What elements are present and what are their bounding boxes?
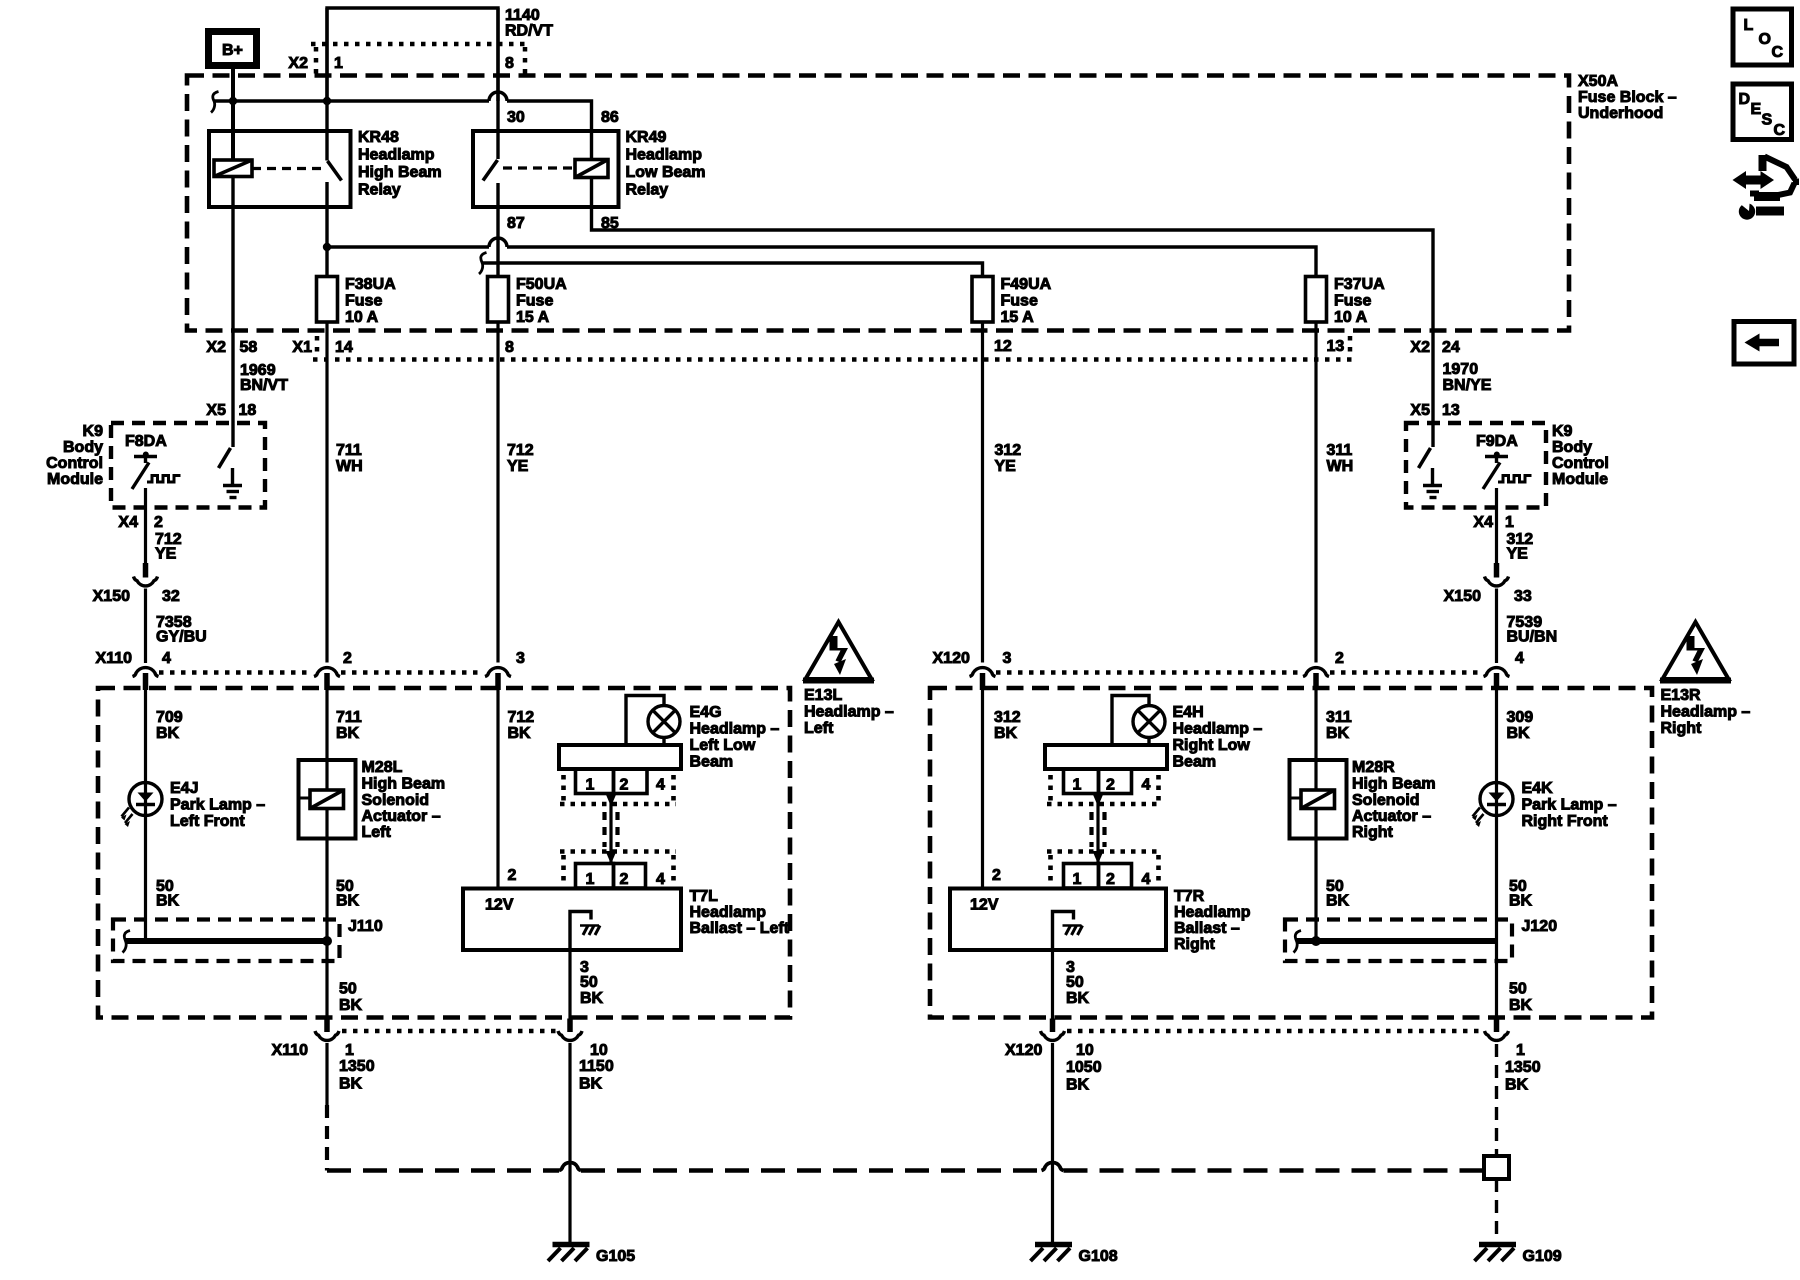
svg-text:BK: BK	[1507, 725, 1531, 742]
svg-text:10: 10	[1076, 1042, 1094, 1059]
svg-text:BK: BK	[1505, 1077, 1529, 1094]
fuse element F8DA	[132, 452, 181, 490]
svg-text:Right: Right	[1661, 720, 1703, 737]
wire branch to F49UA	[482, 263, 983, 277]
svg-text:86: 86	[601, 109, 619, 126]
svg-text:T7L: T7L	[690, 888, 719, 905]
svg-text:X4: X4	[118, 514, 138, 531]
headlamp bulb E4H loop	[1112, 696, 1149, 746]
svg-text:X110: X110	[96, 650, 133, 667]
svg-text:Body: Body	[63, 439, 103, 456]
svg-text:Fuse Block –: Fuse Block –	[1578, 89, 1677, 106]
wire 712 BK	[496, 690, 499, 889]
svg-text:X2: X2	[288, 55, 308, 72]
svg-text:E13R: E13R	[1661, 687, 1701, 704]
hook splice at J110 bus	[123, 931, 131, 953]
svg-text:X110: X110	[272, 1042, 309, 1059]
svg-text:Control: Control	[1552, 455, 1609, 472]
svg-text:KR49: KR49	[626, 129, 667, 146]
headlamp E4G base bar	[559, 745, 681, 769]
svg-text:1: 1	[1073, 777, 1082, 794]
svg-text:X150: X150	[1444, 588, 1481, 605]
svg-text:BU/BN: BU/BN	[1507, 629, 1558, 646]
connector X110 pin 4 cup	[133, 668, 159, 690]
svg-text:BK: BK	[1509, 997, 1533, 1014]
svg-text:K9: K9	[1552, 423, 1573, 440]
svg-text:311: 311	[1326, 709, 1352, 726]
svg-text:BK: BK	[156, 725, 180, 742]
svg-text:YE: YE	[155, 546, 177, 563]
svg-text:312: 312	[995, 442, 1022, 459]
connector X2 top dotted box	[311, 44, 528, 75]
svg-text:Park Lamp –: Park Lamp –	[1522, 797, 1617, 814]
connector pins 1 2 4 upper right	[1064, 769, 1132, 794]
wire hop over pin-8 line	[489, 92, 507, 101]
svg-text:F38UA: F38UA	[345, 276, 396, 293]
headlamp bulb E4H	[1133, 706, 1165, 746]
splice box right	[1484, 1156, 1509, 1179]
connector X150-33 pin and cup	[1494, 563, 1500, 578]
male pin arrow lower left	[606, 851, 617, 864]
svg-text:J110: J110	[348, 918, 383, 935]
svg-text:309: 309	[1507, 709, 1534, 726]
connector X120 pin 3 cup	[970, 668, 996, 690]
connector pins 1 2 4 lower right	[1064, 864, 1132, 889]
svg-text:50: 50	[1066, 974, 1084, 991]
relay KR49 switch blade	[483, 160, 498, 181]
ground symbol in BCM right	[1423, 468, 1442, 498]
connector dashed box upper left	[560, 775, 676, 804]
svg-text:1: 1	[334, 55, 343, 72]
svg-text:87: 87	[507, 215, 525, 232]
solenoid M28R box	[1290, 760, 1347, 839]
ground distribution dashed path left	[325, 1105, 329, 1171]
svg-text:Beam: Beam	[690, 754, 734, 771]
fuse element F9DA	[1483, 452, 1532, 490]
svg-text:BN/VT: BN/VT	[240, 377, 288, 394]
svg-text:BK: BK	[336, 893, 360, 910]
hop dome over G108 wire	[1042, 1163, 1064, 1171]
svg-text:WH: WH	[336, 458, 363, 475]
harness wire between connectors left	[609, 794, 612, 865]
wire E4K ground down	[1495, 941, 1498, 1019]
svg-text:Actuator –: Actuator –	[1352, 808, 1431, 825]
junction dot pin87 branch	[323, 243, 331, 251]
svg-text:E13L: E13L	[804, 687, 842, 704]
svg-text:Body: Body	[1552, 439, 1592, 456]
svg-text:BK: BK	[508, 725, 532, 742]
svg-text:8: 8	[505, 55, 514, 72]
svg-text:312: 312	[994, 709, 1021, 726]
wire branch 87 to fuse F37UA	[327, 245, 489, 248]
svg-text:2: 2	[508, 867, 517, 884]
connector X110 top dotted strip	[159, 670, 484, 675]
svg-text:711: 711	[336, 442, 362, 459]
wire bus to KR49 pin 86	[507, 101, 592, 160]
connector X120 pin 2 cup	[1303, 668, 1329, 690]
svg-text:4: 4	[1515, 650, 1524, 667]
svg-text:BN/YE: BN/YE	[1443, 377, 1492, 394]
svg-text:E4G: E4G	[690, 704, 722, 721]
svg-text:10 A: 10 A	[1334, 309, 1368, 326]
svg-text:Left Low: Left Low	[690, 737, 756, 754]
wire 711 BK	[325, 690, 328, 760]
svg-text:12V: 12V	[485, 897, 514, 914]
svg-text:711: 711	[336, 709, 362, 726]
svg-text:8: 8	[505, 339, 514, 356]
relay KR49 coil	[575, 160, 608, 178]
wire 312 BK	[981, 690, 984, 889]
wire KR48 pin 87 down to fuse F38UA	[325, 182, 328, 277]
svg-text:Headlamp –: Headlamp –	[1173, 721, 1263, 738]
svg-text:3: 3	[516, 650, 525, 667]
svg-text:1: 1	[1073, 871, 1082, 888]
svg-text:1350: 1350	[339, 1058, 375, 1075]
wire KR49 pin 87 down to fuse F50UA	[496, 183, 499, 277]
svg-text:GY/BU: GY/BU	[156, 629, 207, 646]
module K9 BCM right dashed box	[1406, 423, 1546, 508]
svg-text:13: 13	[1442, 402, 1460, 419]
connector X120-1 pin and cup	[1494, 1019, 1500, 1033]
connector X110-10 pin and cup	[567, 1019, 573, 1033]
svg-text:RD/VT: RD/VT	[505, 23, 553, 40]
relay KR48 box	[209, 131, 351, 207]
wire pin8 to KR49 switch	[496, 8, 499, 159]
headlamp bulb E4G	[648, 706, 680, 746]
svg-text:Right: Right	[1174, 936, 1216, 953]
svg-text:4: 4	[162, 650, 171, 667]
svg-text:E4K: E4K	[1522, 780, 1554, 797]
svg-text:2: 2	[620, 777, 629, 794]
svg-text:BK: BK	[580, 990, 604, 1007]
svg-text:3: 3	[1003, 650, 1012, 667]
svg-text:K9: K9	[83, 423, 104, 440]
ground bus J120	[1297, 938, 1497, 944]
ground symbol in BCM left	[223, 468, 242, 498]
wire dashed splice to G109	[1495, 1179, 1498, 1243]
hook splice at bus start	[211, 92, 219, 113]
svg-text:10 A: 10 A	[345, 309, 379, 326]
svg-text:BK: BK	[339, 997, 363, 1014]
svg-text:F49UA: F49UA	[1001, 276, 1052, 293]
svg-text:S: S	[1762, 112, 1773, 129]
svg-text:Headlamp –: Headlamp –	[804, 704, 894, 721]
svg-text:F37UA: F37UA	[1334, 276, 1385, 293]
wire 709 BK	[144, 690, 147, 941]
wire hop over pin87 line	[489, 238, 507, 247]
svg-text:E4J: E4J	[170, 780, 198, 797]
svg-text:33: 33	[1514, 588, 1532, 605]
svg-text:Park Lamp –: Park Lamp –	[170, 797, 265, 814]
wire 7358 GY/BU	[144, 589, 147, 664]
svg-text:712: 712	[507, 442, 534, 459]
svg-text:YE: YE	[1507, 546, 1529, 563]
svg-text:Left Front: Left Front	[170, 813, 245, 830]
svg-text:BK: BK	[1326, 725, 1350, 742]
svg-text:BK: BK	[1509, 893, 1533, 910]
svg-text:F9DA: F9DA	[1476, 433, 1518, 450]
svg-text:YE: YE	[995, 458, 1017, 475]
svg-text:712: 712	[508, 709, 535, 726]
junction dot J110	[322, 936, 332, 946]
icon navigation arrow with wrench	[1733, 155, 1800, 220]
svg-text:High Beam: High Beam	[362, 776, 446, 793]
battery feed B+	[209, 32, 257, 66]
wire pin1 to KR48 switch	[325, 8, 328, 161]
svg-text:1970: 1970	[1443, 361, 1479, 378]
relay KR49 box	[473, 131, 619, 207]
svg-text:14: 14	[335, 339, 353, 356]
svg-text:18: 18	[239, 402, 257, 419]
svg-text:Module: Module	[47, 471, 103, 488]
wire 311 BK	[1314, 690, 1317, 760]
splice block J110 dashed box	[113, 920, 340, 962]
ballast T7R box	[950, 889, 1166, 951]
wire 1350 BK right dashed to splice	[1495, 1044, 1498, 1156]
svg-text:BK: BK	[156, 893, 180, 910]
svg-text:X2: X2	[206, 339, 226, 356]
connector X120 bottom dotted strip	[1067, 1029, 1483, 1034]
svg-text:1: 1	[586, 871, 595, 888]
wire 311 WH mid	[1314, 322, 1317, 663]
wire T7R ground down	[1051, 950, 1054, 1019]
connector pins 1 2 4 lower left	[576, 864, 646, 889]
svg-text:2: 2	[620, 871, 629, 888]
svg-text:B+: B+	[222, 42, 243, 59]
svg-text:2: 2	[1106, 777, 1115, 794]
hook splice at J120 bus	[1294, 931, 1302, 953]
svg-text:Low Beam: Low Beam	[626, 164, 706, 181]
svg-text:50: 50	[1509, 981, 1527, 998]
svg-text:High Beam: High Beam	[1352, 776, 1436, 793]
svg-text:1: 1	[1505, 514, 1514, 531]
wire X4-2 out of BCM left	[144, 488, 147, 563]
svg-text:1140: 1140	[505, 7, 540, 24]
svg-text:Headlamp: Headlamp	[358, 147, 435, 164]
svg-text:X2: X2	[1410, 339, 1430, 356]
svg-text:1150: 1150	[579, 1058, 614, 1075]
svg-text:2: 2	[154, 514, 163, 531]
svg-text:Fuse: Fuse	[516, 293, 553, 310]
svg-text:2: 2	[343, 650, 352, 667]
svg-text:13: 13	[1327, 338, 1345, 355]
switch in BCM left	[219, 448, 231, 468]
svg-text:4: 4	[1142, 777, 1151, 794]
svg-text:10: 10	[590, 1042, 608, 1059]
svg-text:Right Front: Right Front	[1522, 813, 1609, 830]
warning triangle E13R	[1660, 622, 1731, 681]
svg-text:G105: G105	[596, 1248, 635, 1265]
ballast T7L box	[463, 889, 681, 951]
connector X110 bottom dotted strip	[342, 1029, 556, 1034]
svg-text:30: 30	[507, 109, 525, 126]
wire B+ vertical	[231, 69, 235, 160]
relay KR49 coil link dashed	[503, 166, 575, 169]
svg-text:X150: X150	[93, 588, 130, 605]
fuse F50UA	[488, 277, 509, 323]
svg-text:KR48: KR48	[358, 129, 399, 146]
svg-text:BK: BK	[336, 725, 360, 742]
wire 1350 BK to ground path	[325, 1043, 328, 1105]
headlamp E13L dashed box	[98, 688, 790, 1018]
wire 1050 BK down to G108	[1051, 1043, 1054, 1243]
connector pins 1 2 4 upper left	[576, 769, 648, 794]
headlamp bulb E4G loop	[626, 696, 664, 746]
relay KR48 switch blade	[328, 161, 342, 181]
svg-text:50: 50	[580, 974, 598, 991]
male pin arrow upper left	[606, 794, 617, 807]
relay KR48 coil link dashed	[252, 167, 321, 170]
svg-text:1: 1	[1516, 1042, 1525, 1059]
svg-text:709: 709	[156, 709, 183, 726]
svg-text:Headlamp –: Headlamp –	[690, 721, 780, 738]
wire T7L ground down	[568, 950, 571, 1019]
male pin arrow upper right	[1093, 794, 1104, 807]
svg-text:1050: 1050	[1066, 1059, 1102, 1076]
wire KR49 pin 85 to right drop	[592, 178, 1434, 448]
wire 711 WH	[325, 322, 328, 663]
wire 312 YE mid	[981, 322, 984, 663]
svg-text:Right: Right	[1352, 824, 1394, 841]
wire to F37UA	[507, 247, 1316, 277]
svg-text:Fuse: Fuse	[1001, 293, 1038, 310]
ground G109	[1475, 1245, 1517, 1262]
svg-text:Right Low: Right Low	[1173, 737, 1251, 754]
module K9 BCM left dashed box	[111, 423, 265, 508]
junction dot J120	[1311, 936, 1321, 946]
svg-text:D: D	[1739, 91, 1751, 108]
connector X110 pin 2 cup	[314, 668, 340, 690]
svg-text:E: E	[1751, 101, 1762, 118]
svg-text:G109: G109	[1523, 1248, 1562, 1265]
harness wire between connectors right	[1096, 794, 1099, 865]
svg-text:Ballast –: Ballast –	[1174, 920, 1240, 937]
svg-text:X5: X5	[1410, 402, 1430, 419]
connector X150-32 pin and cup	[143, 563, 149, 578]
ground bus J110	[126, 938, 329, 944]
hop dome over G105 wire	[559, 1162, 581, 1170]
svg-text:2: 2	[1106, 871, 1115, 888]
wire 1150 BK down to G105	[568, 1043, 571, 1243]
svg-text:1: 1	[586, 777, 595, 794]
svg-text:Underhood: Underhood	[1578, 105, 1663, 122]
ground symbol in T7R	[1053, 912, 1083, 951]
svg-text:Headlamp –: Headlamp –	[1661, 704, 1751, 721]
svg-text:O: O	[1759, 31, 1771, 48]
ground G108	[1031, 1245, 1073, 1262]
wire 712 YE mid	[496, 322, 499, 663]
svg-text:X5: X5	[206, 402, 226, 419]
park lamp E4J	[121, 783, 162, 828]
svg-text:X120: X120	[933, 650, 970, 667]
svg-text:2: 2	[1335, 650, 1344, 667]
svg-text:Module: Module	[1552, 471, 1608, 488]
svg-text:1350: 1350	[1505, 1059, 1541, 1076]
relay KR48 coil	[214, 160, 252, 177]
connector X120 pin 4 cup	[1484, 668, 1510, 690]
svg-text:4: 4	[656, 871, 665, 888]
solenoid M28L box	[299, 760, 356, 839]
fuse F49UA	[972, 277, 993, 323]
headlamp E13R dashed box	[930, 688, 1652, 1018]
svg-text:J120: J120	[1522, 918, 1558, 935]
svg-text:Left: Left	[362, 824, 392, 841]
junction dot at pin1 bus	[323, 97, 331, 105]
svg-text:X120: X120	[1005, 1042, 1042, 1059]
svg-text:X4: X4	[1473, 514, 1493, 531]
svg-text:Control: Control	[46, 455, 103, 472]
svg-text:12: 12	[994, 338, 1012, 355]
wire top loop 1140 RD/VT	[327, 8, 498, 101]
svg-text:Fuse: Fuse	[345, 293, 382, 310]
svg-text:YE: YE	[507, 458, 529, 475]
svg-text:F50UA: F50UA	[516, 276, 567, 293]
svg-text:Headlamp: Headlamp	[1174, 904, 1251, 921]
svg-text:T7R: T7R	[1174, 888, 1205, 905]
svg-text:High Beam: High Beam	[358, 164, 442, 181]
splice block J120 dashed box	[1285, 920, 1512, 962]
connector X110-1 pin and cup	[324, 1019, 330, 1033]
svg-text:C: C	[1774, 122, 1786, 139]
icon DESC box	[1733, 84, 1792, 140]
connector X1 dotted box	[313, 336, 1352, 360]
svg-text:Solenoid: Solenoid	[362, 792, 430, 809]
svg-text:12V: 12V	[970, 897, 999, 914]
wire through M28L	[325, 760, 328, 790]
fuse F38UA	[317, 277, 338, 323]
svg-text:1: 1	[345, 1042, 354, 1059]
svg-text:24: 24	[1442, 339, 1460, 356]
ground symbol in T7L	[570, 912, 600, 951]
wire X4-1 out of BCM right	[1495, 488, 1498, 563]
svg-text:E4H: E4H	[1173, 704, 1204, 721]
wire B+ bus	[214, 99, 489, 102]
park lamp E4K	[1472, 783, 1513, 828]
svg-text:BK: BK	[339, 1076, 363, 1093]
fuse block X50A dashed box	[187, 76, 1569, 331]
switch in BCM right	[1419, 448, 1431, 468]
svg-text:BK: BK	[1066, 1077, 1090, 1094]
svg-text:15 A: 15 A	[516, 309, 550, 326]
svg-text:15 A: 15 A	[1001, 309, 1035, 326]
icon back arrow box	[1734, 322, 1794, 365]
connector dashed box lower right	[1047, 852, 1161, 883]
connector X120-10 pin and cup	[1050, 1019, 1056, 1033]
svg-text:M28R: M28R	[1352, 759, 1395, 776]
ground distribution dashed bus	[327, 1168, 1484, 1173]
hook splice at F49UA branch	[479, 253, 487, 275]
svg-text:2: 2	[992, 867, 1001, 884]
fuse F37UA	[1306, 277, 1327, 323]
solenoid M28L coil	[299, 790, 344, 809]
svg-text:BK: BK	[1326, 893, 1350, 910]
svg-text:WH: WH	[1327, 458, 1354, 475]
svg-text:Relay: Relay	[626, 182, 669, 199]
junction dot at B+ bus	[229, 97, 237, 105]
svg-text:50: 50	[339, 981, 357, 998]
svg-text:Fuse: Fuse	[1334, 293, 1371, 310]
warning triangle E13L	[803, 622, 874, 681]
svg-text:Left: Left	[804, 720, 834, 737]
svg-text:BK: BK	[1066, 990, 1090, 1007]
svg-text:58: 58	[240, 339, 258, 356]
icon LOC box	[1733, 9, 1792, 65]
svg-text:BK: BK	[994, 725, 1018, 742]
svg-text:Headlamp: Headlamp	[626, 147, 703, 164]
svg-text:Beam: Beam	[1173, 754, 1217, 771]
svg-text:4: 4	[1142, 871, 1151, 888]
svg-text:Actuator –: Actuator –	[362, 808, 441, 825]
